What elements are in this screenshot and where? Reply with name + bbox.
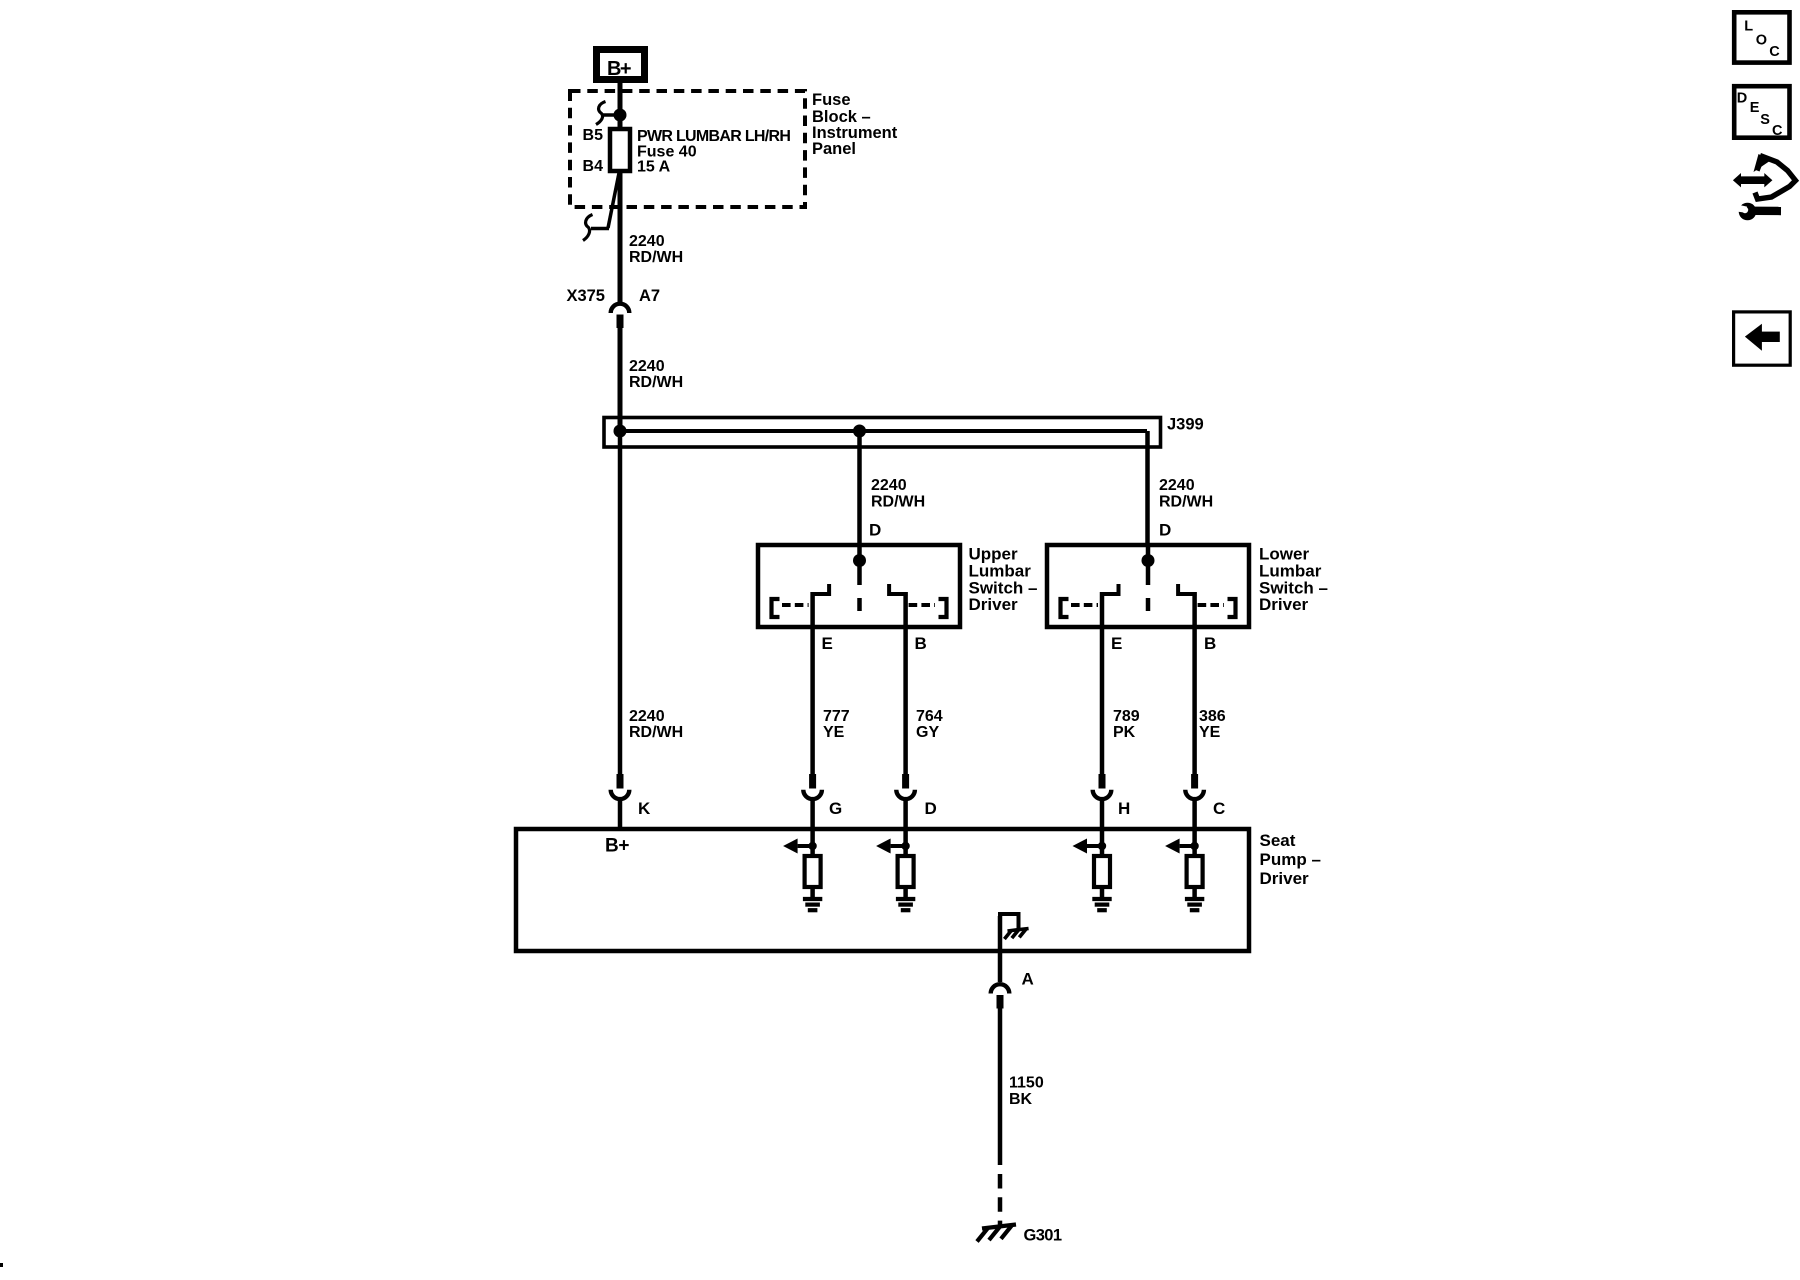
lower lumbar up motor M3 arrow (motor drive)	[1073, 839, 1107, 854]
splice bus bar	[620, 429, 1147, 433]
svg-text:D: D	[1159, 521, 1171, 540]
ground label G301	[1024, 1227, 1062, 1245]
wire - lower lumbar down motor M4 to ground	[1192, 887, 1197, 899]
svg-text:RD/WH: RD/WH	[871, 494, 925, 511]
svg-text:2240: 2240	[1159, 477, 1195, 494]
wire - lumbar up motor M1 feed	[810, 831, 815, 856]
upper lumbar switch outline	[758, 545, 960, 627]
wire - X375 to splice J399	[618, 327, 623, 431]
terminal clip lower (pin B4)	[583, 215, 593, 241]
fuse block dashed outline (Fuse Block - Instrument Panel)	[570, 91, 805, 207]
wire label 764 GY	[916, 708, 943, 741]
lower lumbar switch common pole wire	[1146, 547, 1151, 585]
svg-text:A7: A7	[639, 287, 660, 305]
wire - upper switch B to pump D	[903, 627, 908, 775]
ground - lower lumbar down motor M4 internal	[1185, 899, 1204, 910]
upper lumbar switch right dashed link	[909, 603, 935, 607]
svg-text:RD/WH: RD/WH	[629, 374, 683, 391]
wire - lumbar up motor M1 to ground	[810, 887, 815, 899]
wire - lumbar down motor M2 feed	[903, 831, 908, 856]
svg-text:X375: X375	[566, 287, 605, 305]
upper lumbar switch right detent bracket	[939, 599, 947, 617]
lumbar up motor M1 winding (motor element)	[805, 856, 821, 887]
wire - B+ feed into fuse block	[618, 83, 623, 131]
connector terminal D	[896, 774, 915, 799]
splice label J399	[1167, 416, 1204, 434]
svg-text:2240: 2240	[629, 358, 665, 375]
lower lumbar switch left dashed link	[1071, 603, 1098, 607]
pin label B4	[583, 158, 604, 175]
pump internal ground jumper	[998, 912, 1021, 929]
fuse pull-out diagonal	[608, 173, 619, 228]
fuse text label	[637, 128, 790, 176]
upper lumbar switch left dashed link	[782, 603, 809, 607]
svg-text:2240: 2240	[629, 233, 665, 250]
wire label 1150 BK	[1009, 1075, 1044, 1109]
wire - lower switch E to pump H	[1100, 627, 1105, 775]
seat pump - driver outline	[516, 829, 1249, 951]
svg-text:C: C	[1213, 799, 1225, 818]
lower lumbar up motor M3 winding (motor element)	[1094, 856, 1110, 887]
wire label 2240 RD/WH (X375 to J399)	[629, 358, 683, 391]
wire - H into pump	[1100, 800, 1105, 831]
terminal label D lower switch	[1159, 521, 1171, 540]
icon - wiring tool (wrench)	[1733, 203, 1782, 221]
svg-text:E: E	[822, 634, 833, 653]
terminal clip upper (pin B5)	[596, 102, 606, 125]
upper lumbar switch movable contact dash	[857, 598, 862, 611]
wire - fuse output	[618, 171, 623, 302]
lumbar up motor M1 arrow (motor drive)	[783, 839, 817, 854]
svg-text:D: D	[869, 521, 881, 540]
wire - D into pump	[903, 800, 908, 831]
svg-text:O: O	[1756, 32, 1767, 48]
connector terminal K	[611, 774, 630, 799]
wire - lower lumbar down motor M4 feed	[1192, 831, 1197, 856]
svg-text:C: C	[1769, 44, 1780, 60]
icon button back arrow	[1734, 312, 1791, 365]
ground - lower lumbar up motor M3 internal	[1092, 899, 1111, 910]
wire - lumbar down motor M2 to ground	[903, 887, 908, 899]
wire - stub to lower clip	[591, 227, 609, 231]
lower lumbar switch right contact	[1178, 584, 1197, 629]
icon button DESC	[1734, 86, 1789, 139]
svg-text:G: G	[829, 799, 842, 818]
battery positive voltage symbol B+	[597, 50, 645, 81]
upper lumbar switch junction dot	[853, 554, 866, 567]
fuse block label	[812, 91, 898, 158]
upper lumbar switch right contact	[889, 584, 908, 629]
svg-text:RD/WH: RD/WH	[1159, 494, 1213, 511]
svg-text:L: L	[1744, 19, 1753, 35]
lower lumbar switch label	[1259, 545, 1328, 615]
wire - J399 to upper lumbar switch	[857, 431, 862, 547]
lower lumbar switch right detent bracket	[1228, 599, 1236, 617]
terminal label B lower	[1204, 634, 1216, 653]
svg-text:2240: 2240	[629, 708, 665, 725]
lumbar down motor M2 winding (motor element)	[898, 856, 914, 887]
lower lumbar down motor M4 arrow (motor drive)	[1165, 839, 1199, 854]
terminal label G	[829, 799, 842, 818]
lower lumbar switch right dashed link	[1198, 603, 1224, 607]
svg-text:GY: GY	[916, 724, 939, 741]
junction dot at fuse input	[614, 109, 627, 122]
lower lumbar switch movable contact dash	[1146, 598, 1151, 611]
terminal label B upper	[915, 634, 927, 653]
junction dot J399 middle	[853, 425, 866, 438]
svg-text:PWR LUMBAR LH/RH: PWR LUMBAR LH/RH	[637, 128, 790, 145]
connector label X375	[566, 287, 605, 305]
svg-text:B+: B+	[607, 58, 631, 80]
wire - upper switch E to pump G	[810, 627, 815, 775]
svg-text:E: E	[1111, 634, 1122, 653]
svg-text:789: 789	[1113, 708, 1140, 725]
wire label 789 PK	[1113, 708, 1140, 741]
pin label B5	[583, 127, 604, 144]
wire - pump internal ground lead	[998, 916, 1003, 982]
svg-text:B5: B5	[583, 127, 604, 144]
lower lumbar switch left contact	[1100, 584, 1119, 629]
svg-text:B: B	[915, 634, 927, 653]
svg-text:Driver: Driver	[969, 595, 1019, 614]
terminal label B+ inside pump	[605, 836, 629, 857]
svg-text:C: C	[1772, 123, 1783, 139]
connector terminal H	[1093, 774, 1112, 799]
wire - J399 to lower lumbar switch	[1145, 431, 1150, 547]
svg-text:YE: YE	[1199, 724, 1221, 741]
wire - dashed to ground G301	[998, 1174, 1003, 1226]
wire - lower lumbar up motor M3 feed	[1100, 831, 1105, 856]
svg-text:BK: BK	[1009, 1091, 1033, 1108]
in-line connector X375 terminal A7	[611, 304, 630, 328]
wire - stub from clip to junction	[602, 113, 620, 117]
svg-text:YE: YE	[823, 724, 845, 741]
splice pack J399 outline	[604, 418, 1161, 448]
wire - K into pump	[618, 800, 623, 831]
svg-text:Panel: Panel	[812, 140, 856, 158]
svg-text:S: S	[1760, 112, 1770, 128]
seat pump label	[1260, 831, 1321, 888]
upper lumbar switch label	[969, 545, 1038, 615]
svg-text:Fuse: Fuse	[812, 91, 851, 109]
svg-text:H: H	[1118, 799, 1130, 818]
icon - wiring tool (curved arrow)	[1754, 154, 1796, 199]
svg-text:RD/WH: RD/WH	[629, 724, 683, 741]
svg-text:J399: J399	[1167, 416, 1204, 434]
terminal label E upper	[822, 634, 833, 653]
wire label 777 YE	[823, 708, 850, 741]
connector terminal C	[1185, 774, 1204, 799]
chassis ground - pump case	[1004, 929, 1028, 940]
page corner mark	[0, 1263, 3, 1267]
wire - pump A to splice	[998, 1009, 1003, 1166]
svg-text:K: K	[638, 799, 651, 818]
terminal label E lower	[1111, 634, 1122, 653]
connector terminal G	[803, 774, 822, 799]
svg-text:B: B	[1204, 634, 1216, 653]
lower lumbar switch outline	[1047, 545, 1249, 627]
svg-text:15 A: 15 A	[637, 159, 671, 176]
ground G301 chassis symbol	[977, 1225, 1016, 1242]
wire - lower lumbar up motor M3 to ground	[1100, 887, 1105, 899]
svg-text:777: 777	[823, 708, 850, 725]
ground - lumbar down motor M2 internal	[896, 899, 915, 910]
lower lumbar down motor M4 winding (motor element)	[1187, 856, 1203, 887]
svg-text:PK: PK	[1113, 724, 1136, 741]
lower lumbar switch junction dot	[1142, 554, 1155, 567]
ground - lumbar up motor M1 internal	[803, 899, 822, 910]
terminal label A	[1022, 970, 1034, 989]
svg-text:RD/WH: RD/WH	[629, 249, 683, 266]
svg-text:Pump –: Pump –	[1260, 850, 1321, 869]
upper lumbar switch left contact	[811, 584, 830, 629]
svg-text:764: 764	[916, 708, 943, 725]
icon button LOC	[1734, 12, 1789, 62]
icon - wiring tool (double arrow)	[1733, 173, 1773, 187]
wire label 386 YE	[1199, 708, 1226, 741]
svg-text:Driver: Driver	[1260, 869, 1310, 888]
wire label 2240 RD/WH (to pump K)	[629, 708, 683, 741]
wire label 2240 RD/WH (to upper switch)	[871, 477, 925, 511]
upper lumbar switch common pole wire	[857, 547, 862, 585]
svg-text:Seat: Seat	[1260, 831, 1296, 850]
wire - C into pump	[1192, 800, 1197, 831]
junction dot J399 left	[614, 425, 627, 438]
terminal label C	[1213, 799, 1225, 818]
wire - J399 to seat pump terminal K	[618, 431, 623, 775]
svg-text:B+: B+	[605, 836, 629, 857]
lumbar down motor M2 arrow (motor drive)	[876, 839, 910, 854]
upper lumbar switch left detent bracket	[772, 599, 780, 617]
terminal label D upper switch	[869, 521, 881, 540]
wire label 2240 RD/WH (to lower switch)	[1159, 477, 1213, 511]
svg-text:B4: B4	[583, 158, 604, 175]
terminal label H	[1118, 799, 1130, 818]
lower lumbar switch left detent bracket	[1061, 599, 1069, 617]
svg-text:1150: 1150	[1009, 1075, 1044, 1092]
svg-text:2240: 2240	[871, 477, 907, 494]
svg-text:G301: G301	[1024, 1227, 1062, 1245]
svg-text:386: 386	[1199, 708, 1226, 725]
connector terminal A	[991, 984, 1010, 1008]
svg-text:D: D	[925, 799, 937, 818]
svg-text:E: E	[1750, 100, 1760, 116]
terminal label D	[925, 799, 937, 818]
wire - lower switch B to pump C	[1192, 627, 1197, 775]
wire - G into pump	[810, 800, 815, 831]
wire label 2240 RD/WH (fuse to X375)	[629, 233, 683, 266]
fuse F40 (PWR LUMBAR LH/RH Fuse 40 15 A)	[610, 129, 630, 171]
svg-text:D: D	[1737, 90, 1747, 106]
connector label A7	[639, 287, 660, 305]
svg-text:A: A	[1022, 970, 1034, 989]
terminal label K	[638, 799, 651, 818]
svg-text:Driver: Driver	[1259, 595, 1309, 614]
